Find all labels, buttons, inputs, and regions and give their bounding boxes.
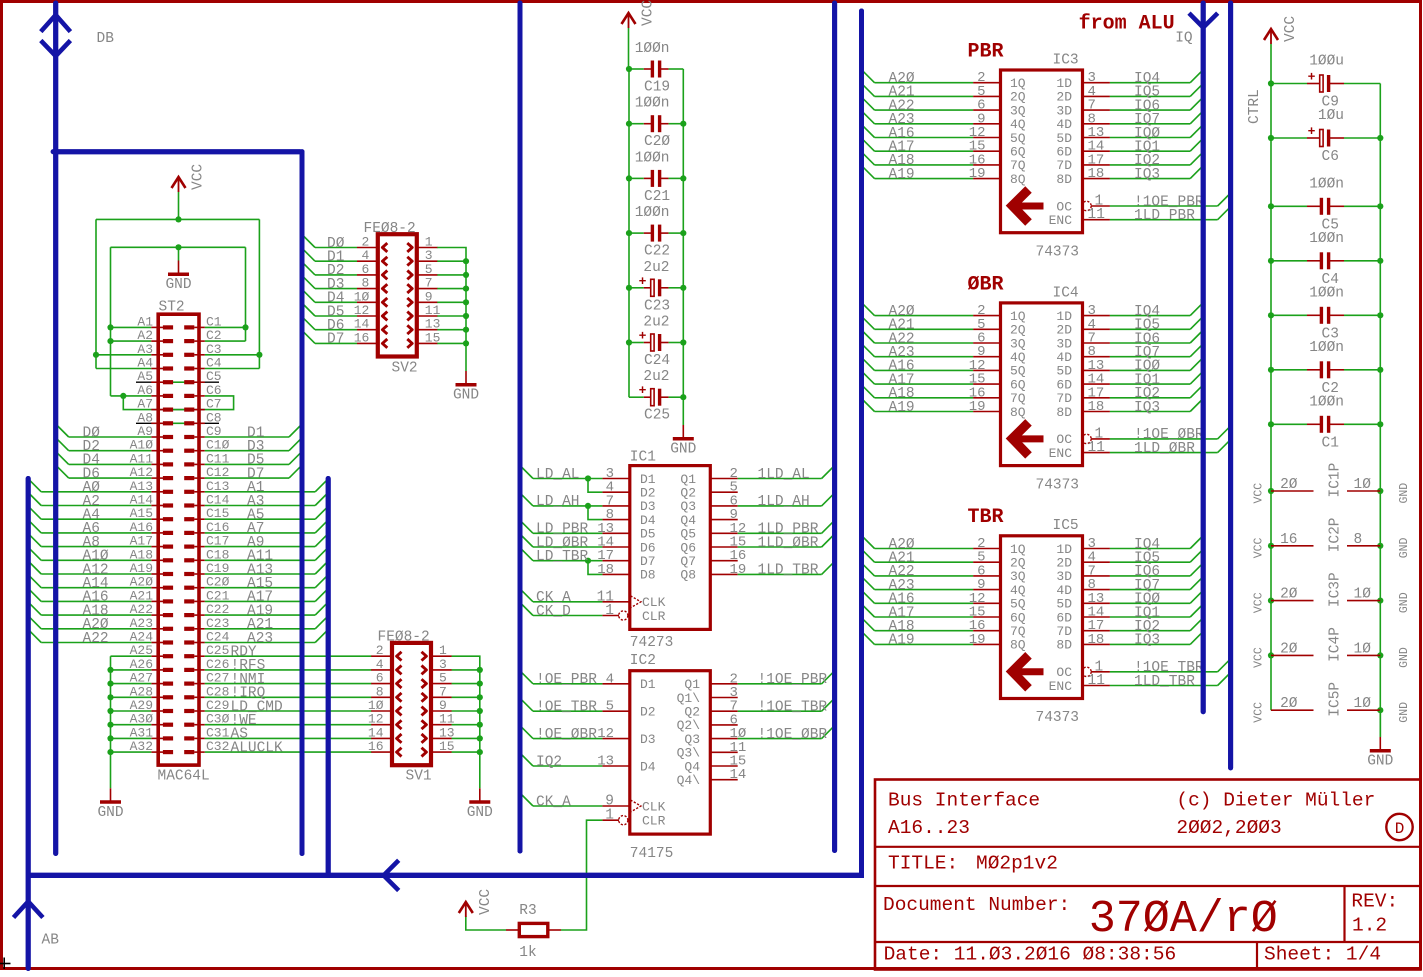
name C21 <box>644 189 670 205</box>
junction inner C1 <box>242 324 248 330</box>
bus DB label <box>97 31 115 47</box>
capacitor C3 <box>1271 307 1380 324</box>
svg-text:D2: D2 <box>640 705 656 720</box>
capacitor C5 <box>1271 198 1380 215</box>
label GND IC4P <box>1398 647 1411 668</box>
wire 1LD_PBR <box>738 520 835 533</box>
net label A21 <box>247 617 273 633</box>
svg-text:12: 12 <box>597 726 614 742</box>
svg-text:4: 4 <box>606 671 614 687</box>
wire A23 to IC5 <box>862 577 974 590</box>
wire A18 to IC5 <box>862 618 974 631</box>
wire outer loop left <box>95 219 97 368</box>
net label IQ2 <box>536 754 562 770</box>
net label !1OE_0BR <box>758 727 828 743</box>
svg-text:IC4: IC4 <box>1053 285 1079 301</box>
wire inner loop A6 <box>111 395 152 397</box>
net label D0 SV2 <box>327 236 345 252</box>
net label LD_AL <box>536 467 580 483</box>
svg-text:GND: GND <box>1398 537 1411 558</box>
svg-text:!OE_TBR: !OE_TBR <box>536 700 597 716</box>
wire A19 to AB bus <box>205 602 328 615</box>
svg-text:11: 11 <box>1088 207 1105 223</box>
net label !1OE_0BR <box>1134 427 1204 443</box>
svg-text:TITLE:: TITLE: <box>888 853 958 875</box>
net label 1LD_AH <box>758 494 810 510</box>
svg-text:8Q: 8Q <box>1010 638 1026 653</box>
svg-text:VCC: VCC <box>641 0 657 26</box>
title REV: <box>1351 891 1398 913</box>
wire A19 to IC5 <box>862 631 974 644</box>
bus AB-branch x861 <box>859 11 864 873</box>
value 100n of C22 <box>635 205 670 221</box>
wire D3 DB to SV2 <box>302 276 357 289</box>
wire IQ0 from IC3 <box>1110 125 1203 138</box>
value 100n of C2 <box>1309 340 1344 356</box>
svg-text:1ØØn: 1ØØn <box>635 41 670 57</box>
net label D6 SV2 <box>327 318 344 334</box>
svg-text:D4: D4 <box>640 759 656 774</box>
svg-text:+: + <box>639 383 647 398</box>
ground GND right chain <box>1367 737 1393 770</box>
register IC2 74175 <box>597 671 746 834</box>
latch IC4 74373 <box>969 303 1110 466</box>
wire 1LD_PBR <box>1110 207 1231 220</box>
net label IQ5 IC4 <box>1134 318 1160 334</box>
title Document Number: <box>883 894 1070 916</box>
net label D6 <box>83 466 100 482</box>
net label !1OE_TBR <box>758 700 828 716</box>
bus CTRL-in vertical x520 <box>518 3 523 851</box>
svg-text:ST2: ST2 <box>159 300 185 316</box>
bus IQ label <box>1175 31 1193 47</box>
label 74273 <box>630 635 674 651</box>
label GND IC5P <box>1398 702 1411 723</box>
value 100n of C21 <box>635 150 670 166</box>
svg-text:1Ø: 1Ø <box>1354 477 1372 493</box>
net label A17 IC4 <box>889 372 915 388</box>
wire LD_CMD to SV1 <box>205 710 372 712</box>
net label D3 SV2 <box>327 277 344 293</box>
wire 1LD_AH <box>738 493 835 506</box>
svg-text:1LD_AL: 1LD_AL <box>758 467 810 483</box>
net label A19 IC4 <box>889 400 915 416</box>
svg-text:VCC: VCC <box>478 889 494 915</box>
net label A20 IC5 <box>889 537 915 553</box>
svg-text:C19: C19 <box>644 80 670 96</box>
wire !1OE_0BR <box>1110 426 1231 439</box>
ground GND SV2 <box>453 371 479 404</box>
wire A25 to GND rail <box>111 655 152 657</box>
wire A16 to IC5 <box>862 590 974 603</box>
label IC2P <box>1328 517 1344 552</box>
wire A21 to IC3 <box>862 83 974 96</box>
bus AB horizontal <box>28 873 864 878</box>
svg-text:1k: 1k <box>519 945 536 961</box>
name C22 <box>644 244 670 260</box>
title Sheet: 1/4 <box>1264 944 1381 966</box>
net label A9 <box>247 535 264 551</box>
bus DB arrow up <box>41 15 71 32</box>
wire A4 from AB bus <box>28 506 151 519</box>
wire A20 from AB bus <box>28 616 151 629</box>
label from ALU <box>1079 13 1175 36</box>
net label D1 SV2 <box>327 250 344 266</box>
svg-text:2u2: 2u2 <box>643 260 669 276</box>
net label D2 <box>83 439 100 455</box>
wire inner A2 <box>111 340 152 342</box>
svg-text:1ØØn: 1ØØn <box>1309 285 1344 301</box>
net label !1OE_PBR <box>1134 194 1204 210</box>
svg-text:D: D <box>1395 820 1405 838</box>
svg-text:IC1: IC1 <box>630 450 656 466</box>
svg-text:ENC: ENC <box>1049 446 1073 461</box>
wire A17 to IC5 <box>862 604 974 617</box>
wire A23 to AB bus <box>205 630 328 643</box>
net label IQ6 IC5 <box>1134 564 1160 580</box>
wire SV1 right GND rail <box>452 656 483 788</box>
svg-text:GND: GND <box>1398 483 1411 504</box>
wire !OE_PBR <box>520 671 602 684</box>
svg-text:Date: 11.Ø3.2Ø16 Ø8:38:56: Date: 11.Ø3.2Ø16 Ø8:38:56 <box>884 944 1177 966</box>
wire A5 to AB bus <box>205 506 328 519</box>
svg-text:!1OE_PBR: !1OE_PBR <box>758 672 828 688</box>
svg-text:19: 19 <box>969 166 986 182</box>
svg-text:VCC: VCC <box>1253 537 1266 558</box>
bus AB left vertical <box>26 479 31 969</box>
net label D3 <box>247 439 264 455</box>
svg-text:!OE_ØBR: !OE_ØBR <box>536 727 597 743</box>
net label A17 IC3 <box>889 140 915 156</box>
net label IQ1 IC3 <box>1134 140 1160 156</box>
wire IQ1 from IC4 <box>1110 371 1203 384</box>
net label A18 IC3 <box>889 153 915 169</box>
wire A19 to IC4 <box>862 399 974 412</box>
svg-text:2Ø: 2Ø <box>1280 641 1298 657</box>
net label A1 <box>247 480 264 496</box>
svg-text:CTRL: CTRL <box>1247 89 1263 124</box>
svg-text:REV:: REV: <box>1351 891 1398 913</box>
wire D2 from DB bus <box>56 438 152 451</box>
wire right chain right rail <box>1377 84 1383 738</box>
wire LD_0BR <box>520 534 602 547</box>
net label !OE_0BR <box>536 727 597 743</box>
wire A22 from AB bus <box>28 630 151 643</box>
wire R3 to VCC <box>466 916 506 930</box>
net label A12 <box>83 562 109 578</box>
svg-text:VCC: VCC <box>1253 647 1266 668</box>
svg-text:!1OE_ØBR: !1OE_ØBR <box>758 727 828 743</box>
net label A20 IC4 <box>889 304 915 320</box>
value 1k R3 <box>519 945 536 961</box>
net label IQ1 IC5 <box>1134 605 1160 621</box>
net label A11 <box>247 549 273 565</box>
svg-text:GND: GND <box>670 442 696 458</box>
value 2u2 of C24 <box>643 315 669 331</box>
wire inner A1 <box>111 326 152 328</box>
title TITLE: M02p1v2 <box>888 853 1058 875</box>
net label A22 IC3 <box>889 98 915 114</box>
bus DB vertical <box>53 3 58 854</box>
svg-text:C24: C24 <box>644 353 670 369</box>
wire !1OE_PBR <box>738 671 835 684</box>
net label !WE <box>231 713 257 729</box>
net label IQ1 IC4 <box>1134 372 1160 388</box>
wire A20 to IC4 <box>862 303 974 316</box>
svg-text:IC5P: IC5P <box>1328 682 1344 717</box>
svg-text:8D: 8D <box>1056 405 1072 420</box>
net label A10 <box>83 549 109 565</box>
label GND IC3P <box>1398 592 1411 613</box>
name C5 <box>1322 217 1339 233</box>
svg-text:D8: D8 <box>640 568 656 583</box>
connector SV1 FE08-2 <box>368 643 455 765</box>
capacitor C20 <box>629 115 683 132</box>
wire IQ3 from IC5 <box>1110 631 1203 644</box>
wire A21 to IC4 <box>862 316 974 329</box>
svg-text:74175: 74175 <box>630 846 674 862</box>
wire D1 DB to SV2 <box>302 248 357 261</box>
ground GND MAC64L <box>97 788 123 821</box>
svg-text:74373: 74373 <box>1036 710 1080 726</box>
net label !1OE_PBR <box>758 672 828 688</box>
label ST2 <box>159 300 185 316</box>
wire A17 to IC3 <box>862 138 974 151</box>
svg-text:FEØ8-2: FEØ8-2 <box>378 630 430 646</box>
label IC4 <box>1053 285 1079 301</box>
net label A18 <box>83 603 109 619</box>
svg-text:VCC: VCC <box>191 164 207 190</box>
net label IQ5 IC5 <box>1134 551 1160 567</box>
svg-text:IC3P: IC3P <box>1328 572 1344 607</box>
power VCC above ST2 <box>172 164 207 192</box>
svg-text:IQ3: IQ3 <box>1134 633 1160 649</box>
wire IQ2 from IC5 <box>1110 618 1203 631</box>
plot corner mark <box>0 958 11 970</box>
wire A3 to AB bus <box>205 493 328 506</box>
net label IQ2 IC4 <box>1134 386 1160 402</box>
svg-text:AB: AB <box>42 933 60 949</box>
net label CK_A IC1 <box>536 590 571 606</box>
svg-text:CLR: CLR <box>642 609 666 624</box>
bus AB arrow up <box>14 902 43 918</box>
capacitor C9 <box>1271 70 1380 93</box>
title 2002,2003 <box>1176 817 1281 839</box>
wire IQ6 from IC3 <box>1110 97 1203 110</box>
value 100n of C19 <box>635 41 670 57</box>
svg-text:1Ø: 1Ø <box>1354 641 1372 657</box>
wire CLR to R3 <box>561 820 602 930</box>
net label D4 <box>83 453 100 469</box>
svg-text:PBR: PBR <box>968 41 1004 64</box>
wire A16 to IC3 <box>862 125 974 138</box>
wire A21 to IC5 <box>862 549 974 562</box>
svg-text:GND: GND <box>97 805 123 821</box>
net label A22 IC5 <box>889 564 915 580</box>
label IC2 <box>630 653 656 669</box>
svg-text:19: 19 <box>730 562 747 578</box>
svg-text:11: 11 <box>1088 440 1105 456</box>
value 100n of C5 <box>1309 176 1344 192</box>
net label A23 IC5 <box>889 578 915 594</box>
label VCC IC5P <box>1253 702 1266 723</box>
net label IQ3 IC3 <box>1134 167 1160 183</box>
capacitor C2 <box>1271 361 1380 378</box>
power pin IC2P <box>1271 532 1380 548</box>
wire A10 from AB bus <box>28 547 151 560</box>
wire RDY to SV1 <box>205 655 372 657</box>
net label ALUCLK <box>231 740 284 756</box>
svg-text:GND: GND <box>1398 702 1411 723</box>
svg-text:TBR: TBR <box>968 506 1004 529</box>
wire IQ7 from IC5 <box>1110 577 1203 590</box>
svg-text:D1: D1 <box>640 677 656 692</box>
label CTRL <box>1247 89 1263 124</box>
wire inner C2 <box>205 340 246 342</box>
svg-text:VCC: VCC <box>1253 592 1266 613</box>
net label A23 IC3 <box>889 112 915 128</box>
label 74373 IC5 <box>1036 710 1080 726</box>
wire LD_AH <box>520 493 602 520</box>
wire A19 to IC3 <box>862 166 974 179</box>
name C4 <box>1322 272 1339 288</box>
svg-text:C25: C25 <box>644 408 670 424</box>
net label A17 IC5 <box>889 605 915 621</box>
svg-text:GND: GND <box>165 277 191 293</box>
svg-text:CLK: CLK <box>642 799 666 814</box>
wire D6 from DB bus <box>56 465 152 478</box>
name C25 <box>644 408 670 424</box>
wire IQ5 from IC4 <box>1110 316 1203 329</box>
wire outer loop right <box>258 219 260 368</box>
bus IQ arrow down <box>1189 13 1218 27</box>
label PBR <box>968 41 1004 64</box>
svg-text:14: 14 <box>730 767 747 783</box>
wire IQ3 from IC4 <box>1110 399 1203 412</box>
svg-text:8D: 8D <box>1056 638 1072 653</box>
svg-text:1ØØn: 1ØØn <box>635 150 670 166</box>
svg-text:ALUCLK: ALUCLK <box>231 740 284 756</box>
power VCC at R3 <box>459 889 494 917</box>
label VCC IC2P <box>1253 537 1266 558</box>
wire IQ2 from IC3 <box>1110 152 1203 165</box>
bus IQ vertical <box>1201 3 1206 712</box>
wire IQ5 from IC5 <box>1110 549 1203 562</box>
net label A16 IC4 <box>889 359 915 375</box>
svg-text:C21: C21 <box>644 189 670 205</box>
net label A16 <box>83 590 109 606</box>
net label A19 IC3 <box>889 167 915 183</box>
name C23 <box>644 298 670 314</box>
wire D6 DB to SV2 <box>302 317 357 330</box>
wire 1LD_TBR <box>1110 673 1231 686</box>
svg-text:2ØØ2,2ØØ3: 2ØØ2,2ØØ3 <box>1176 817 1281 839</box>
wire AS to SV1 <box>205 737 372 739</box>
wire 1LD_TBR <box>738 561 835 574</box>
svg-text:Q8: Q8 <box>680 568 696 583</box>
label FE08-2 SV1 <box>378 630 430 646</box>
svg-text:1ØØn: 1ØØn <box>635 96 670 112</box>
svg-text:IQ3: IQ3 <box>1134 167 1160 183</box>
name C9 <box>1322 95 1339 111</box>
label IC1P <box>1328 463 1344 498</box>
svg-text:ØBR: ØBR <box>968 273 1004 296</box>
net label AS <box>231 727 248 743</box>
svg-text:19: 19 <box>969 399 986 415</box>
svg-text:!OE_PBR: !OE_PBR <box>536 672 597 688</box>
svg-text:2Ø: 2Ø <box>1280 696 1298 712</box>
net label A21 IC5 <box>889 551 915 567</box>
capacitor C4 <box>1271 252 1380 269</box>
net label A22 <box>83 631 109 647</box>
wire A18 to IC3 <box>862 152 974 165</box>
svg-text:VCC: VCC <box>1253 702 1266 723</box>
svg-text:+: + <box>639 329 647 344</box>
wire A8-C8 black <box>136 422 219 424</box>
power VCC right chain <box>1264 16 1299 44</box>
svg-text:A16..23: A16..23 <box>888 817 970 839</box>
wire A7 to AB bus <box>205 520 328 533</box>
net label LD_CMD <box>231 699 283 715</box>
svg-text:(c) Dieter Müller: (c) Dieter Müller <box>1176 790 1375 812</box>
svg-text:1ØØu: 1ØØu <box>1309 54 1344 70</box>
wire D5 DB to SV2 <box>302 303 357 316</box>
wire A9 to AB bus <box>205 534 328 547</box>
svg-text:18: 18 <box>1088 632 1105 648</box>
svg-text:MAC64L: MAC64L <box>158 769 210 785</box>
net label A5 <box>247 508 264 524</box>
resistor R3 <box>506 923 561 936</box>
svg-text:IC5: IC5 <box>1053 518 1079 534</box>
svg-text:D7: D7 <box>327 332 344 348</box>
wire IQ4 from IC3 <box>1110 70 1203 83</box>
svg-text:LD_TBR: LD_TBR <box>536 549 589 565</box>
title 370A/r0 <box>1089 894 1278 945</box>
wire A7-C7 black <box>151 409 205 411</box>
net label D4 SV2 <box>327 291 344 307</box>
net label A16 IC3 <box>889 126 915 142</box>
bus AB right vertical <box>326 479 331 875</box>
power VCC above C19 <box>622 0 657 28</box>
net label A22 IC4 <box>889 331 915 347</box>
net label A17 <box>247 590 273 606</box>
net label D5 SV2 <box>327 304 344 320</box>
net label A18 IC4 <box>889 386 915 402</box>
power pin IC5P <box>1271 696 1380 712</box>
wire LD_AL <box>520 466 602 493</box>
svg-text:1Ø: 1Ø <box>1354 696 1372 712</box>
wire outer loop C3 <box>205 354 260 356</box>
junction inner A2 <box>107 338 113 344</box>
net label A13 <box>247 562 273 578</box>
wire 1LD_0BR <box>1110 440 1231 453</box>
svg-text:C6: C6 <box>1322 149 1339 165</box>
label MAC64L <box>158 769 210 785</box>
wire GND rail A26-A32 <box>107 656 151 788</box>
net label A16 IC5 <box>889 592 915 608</box>
svg-text:2Ø: 2Ø <box>1280 477 1298 493</box>
label SV1 <box>406 769 432 785</box>
svg-text:VCC: VCC <box>1253 483 1266 504</box>
value 100n of C4 <box>1309 231 1344 247</box>
label 74175 <box>630 846 674 862</box>
net label A0 <box>83 480 101 496</box>
wire !OE_TBR <box>520 698 602 711</box>
net label IQ2 IC5 <box>1134 619 1160 635</box>
svg-text:IC2: IC2 <box>630 653 656 669</box>
svg-text:1LD_ØBR: 1LD_ØBR <box>1134 441 1195 457</box>
wire !1OE_TBR <box>738 698 835 711</box>
